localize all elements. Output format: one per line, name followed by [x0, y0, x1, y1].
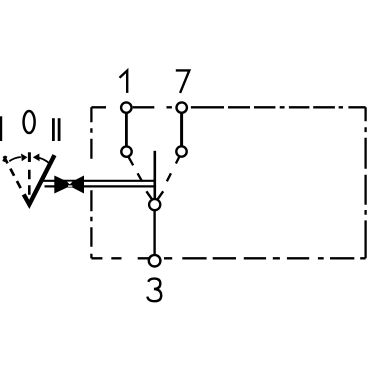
dashed center position line [28, 170, 31, 196]
position 0 tick mark [28, 152, 31, 162]
terminal label 7 (pin number) [176, 70, 190, 93]
terminal label 3 (pin number) [147, 279, 161, 302]
wire terminal 7 to contact [180, 112, 183, 147]
lever (actuator) with V apex [24, 155, 55, 204]
actuator rod lower line [45, 185, 155, 187]
dashed contact path from contact 1 to common node [128, 157, 152, 199]
wire common contact to terminal 3 [153, 210, 155, 256]
common contact circle (node) [149, 199, 160, 210]
detent symbol white bar mark [68, 185, 72, 186]
arc right thin segment [39, 158, 49, 163]
contact V left leg at common node [146, 191, 152, 199]
detent symbol right triangle [67, 176, 85, 194]
terminal 1 circle [121, 102, 131, 112]
terminal 7 circle [177, 102, 187, 112]
dashed lever ghost position I [4, 156, 23, 192]
arc right arrowhead (points left to 0) [33, 154, 40, 162]
wire terminal 1 to contact [125, 112, 128, 147]
arc dash far left [4, 156, 7, 161]
arc left thin segment [9, 157, 20, 161]
dashed contact path from contact 7 to common node [158, 157, 179, 199]
terminal 3 circle [149, 255, 161, 267]
switch housing outline bottom (dash-dot) [91, 257, 365, 259]
position label I [0, 116, 2, 141]
switch housing outline left (dash-dot, gap at actuator rod) [90, 107, 92, 258]
terminal label 1 (pin number) [120, 71, 128, 93]
contact V right leg at common node [157, 191, 163, 199]
arc left arrowhead (points right to 0) [21, 154, 27, 162]
switch housing outline top (dash-dot) [91, 106, 365, 108]
contact circle below terminal 1 [121, 146, 131, 156]
actuator rod upper line [43, 180, 155, 182]
position label 0 (ellipse glyph) [24, 111, 35, 133]
position label II bar 2 [58, 118, 61, 141]
moving contact arm (vertical) [154, 151, 157, 200]
detent symbol left triangle [54, 176, 73, 194]
switch housing outline right (dash-dot) [364, 107, 366, 258]
contact circle below terminal 7 [176, 146, 186, 156]
detent symbol white wedge mark [67, 182, 73, 185]
position label II bar 1 [52, 118, 55, 141]
